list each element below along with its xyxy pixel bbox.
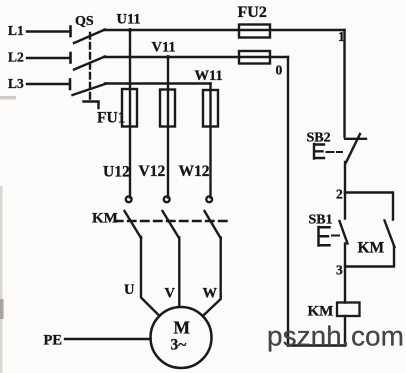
coil KM body [337,303,360,317]
scan artifact streak [0,96,16,100]
svg-text:com: com [351,321,404,352]
wire control line 1 vertical [343,30,345,137]
button SB2 actuator E [314,144,324,159]
scan artifact left edge [0,186,3,373]
svg-text:V12: V12 [139,163,166,180]
fuse FU1 pole2 body [160,90,175,127]
QS pole1 fixed contact tick [69,27,72,37]
wire control line 0 vertical [287,57,289,346]
svg-text:PE: PE [44,333,63,349]
QS pole2 fixed contact tick [69,53,72,63]
svg-text:QS: QS [75,14,94,29]
wire coil to bottom [344,316,346,346]
fuse FU1 pole1 body [122,89,137,127]
wire U11 vertical drop [129,30,131,198]
contactor KM pole3 fixed hook [206,196,212,202]
svg-text:L1: L1 [8,23,24,38]
button SB1 dashed link [332,235,339,237]
switch QS pole3 blade [73,84,107,96]
switch QS pole2 blade [74,57,105,70]
wire bus line 2 (V11) [104,56,288,58]
svg-text:U12: U12 [103,164,130,181]
wire L3 feed [27,83,70,85]
switch QS pole1 blade [74,30,105,44]
wire node2 to SB1 [344,193,346,219]
wire SB2 to node 2 [344,162,346,193]
motor M 3~ circle [151,307,212,368]
contact KM aux blade [385,221,395,248]
svg-text:0: 0 [276,63,283,78]
junction node V11 [166,55,170,59]
fuse FU2 bottom body [239,51,270,64]
button SB1 blade [340,221,348,244]
svg-text:3~: 3~ [171,337,187,354]
svg-text:U11: U11 [117,12,141,28]
wire U motor lead [141,237,159,315]
svg-text:L3: L3 [8,76,24,91]
wire bottom return [288,344,345,346]
svg-text:KM: KM [92,211,118,227]
svg-text:FU2: FU2 [238,4,267,21]
contactor KM pole3 blade [205,211,221,238]
contactor KM pole2 blade [163,211,180,238]
wire L1 feed [27,30,70,32]
watermark psznh.com [267,321,404,352]
QS linkage dashed line [89,33,91,100]
svg-text:W11: W11 [195,68,223,84]
wire L2 feed [27,57,70,59]
svg-text:2: 2 [336,187,343,202]
fuse FU2 top body [239,25,270,38]
svg-text:W: W [203,286,218,302]
fuse FU1 pole3 body [203,90,218,127]
QS linkage handle [84,102,99,109]
junction node U11 [128,28,132,32]
wire PE [65,338,151,340]
wire node 2 branch to KM aux [345,193,393,220]
button SB2 blade [346,134,360,163]
button SB1 actuator E [319,227,330,246]
svg-text:psznh.: psznh. [267,321,350,352]
QS pole3 fixed contact tick [69,80,72,90]
svg-text:KM: KM [308,304,334,320]
wire node 3 to coil [344,267,346,303]
contactor KM pole2 fixed hook [164,196,170,202]
svg-text:SB1: SB1 [309,213,333,228]
wire W11 vertical drop [209,84,211,198]
wire bus line 1 (U11) [104,29,345,31]
wire V motor lead [178,238,180,307]
contactor KM pole1 blade [125,211,142,238]
scan artifact left edge dark mark [0,299,4,319]
svg-text:V: V [165,286,176,302]
svg-text:M: M [174,318,191,338]
wire W motor lead [204,238,221,316]
contactor KM pole1 fixed hook [126,196,132,202]
wire SB1 to node 3 [344,244,346,267]
svg-text:SB2: SB2 [307,131,331,146]
button SB2 NC stop bar [345,138,366,140]
svg-text:U: U [124,282,135,298]
svg-text:KM: KM [358,240,385,257]
wire KM aux to node 3 [346,247,395,267]
button SB2 dashed link [327,151,343,153]
wire V11 vertical drop [167,57,169,198]
svg-text:V11: V11 [152,40,176,56]
svg-text:W12: W12 [179,163,210,180]
KM linkage dashed line [115,220,229,222]
wire bus line 3 (W11) [105,82,211,84]
svg-text:L2: L2 [8,50,24,65]
svg-text:3: 3 [336,263,343,278]
